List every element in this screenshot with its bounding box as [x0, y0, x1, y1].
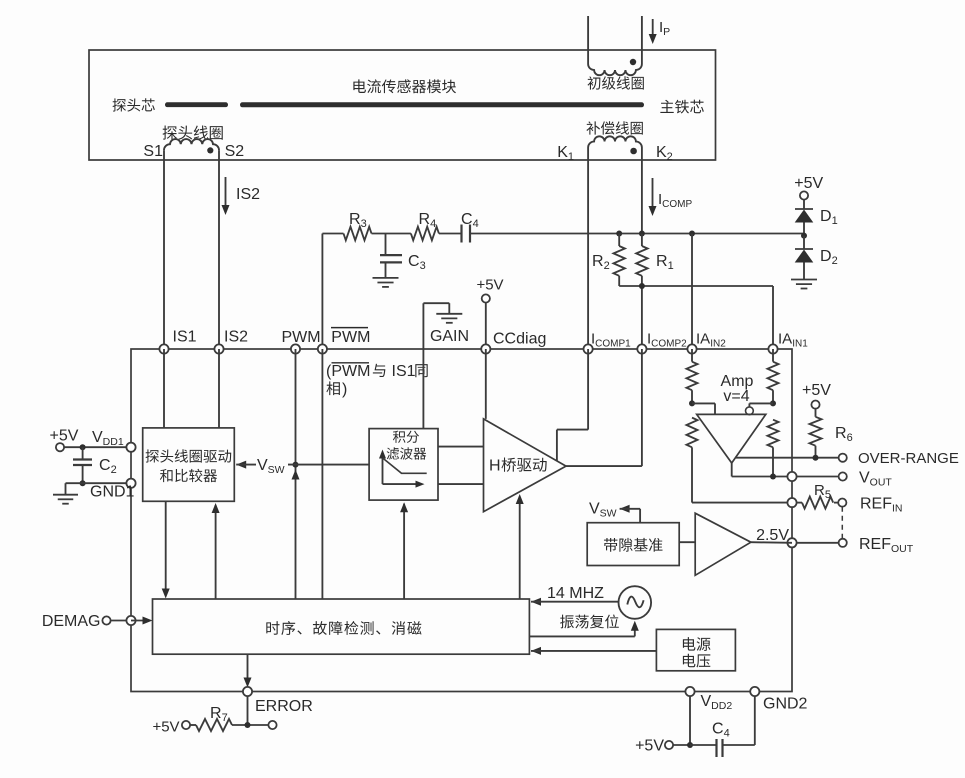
label OVER-RANGE	[858, 450, 959, 467]
svg-text:+5V: +5V	[152, 719, 179, 736]
wire osc to timing	[531, 598, 619, 606]
wire timing to filter (up)	[400, 502, 408, 599]
label R2	[592, 253, 610, 272]
svg-text:PWM: PWM	[331, 329, 370, 346]
label R6	[835, 425, 853, 444]
ground below C3	[373, 278, 399, 287]
svg-text:+5V: +5V	[794, 175, 823, 192]
label 初级线圈 (primary coil)	[588, 76, 644, 89]
feedback resistor left	[687, 418, 698, 503]
label 振荡复位	[560, 614, 619, 628]
note PWM phase line1	[326, 363, 428, 380]
terminal OVER-RANGE	[839, 454, 847, 462]
label REFOUT	[859, 536, 914, 555]
node R6 bottom	[813, 455, 819, 461]
ground below D2	[791, 280, 817, 289]
filter curve	[383, 458, 427, 473]
input resistor from IAIN1	[768, 349, 779, 403]
label 探头线圈驱动	[146, 449, 232, 462]
H-bridge triangle	[484, 419, 567, 512]
label R7	[210, 705, 228, 724]
label 滤波器	[387, 447, 427, 460]
probe core bar	[165, 102, 228, 107]
label 探头线圈 (probe coil)	[163, 125, 223, 139]
wire to IAIN1 pin	[772, 286, 774, 349]
label C4 (series)	[461, 211, 479, 230]
label VDD2	[701, 693, 733, 712]
node ERROR R7	[245, 722, 251, 728]
label C2	[99, 457, 117, 476]
wire timing to osc (reset)	[529, 621, 638, 637]
label R5	[814, 482, 831, 501]
wire amp output to VOUT	[732, 463, 792, 477]
pin IS1	[159, 344, 168, 353]
wire IS2 into drive box	[218, 349, 220, 428]
label 和比较器	[160, 469, 217, 482]
node feedback right to VOUT	[770, 474, 776, 480]
svg-text:IS2: IS2	[224, 329, 248, 346]
label Ip	[659, 19, 670, 38]
label K2	[656, 144, 673, 163]
svg-text:GND2: GND2	[763, 696, 808, 713]
label IAIN1 (pin)	[778, 331, 808, 350]
filter outputs to H-bridge	[438, 447, 484, 485]
oscillator sine	[627, 597, 643, 608]
+5V terminal (diodes)	[794, 175, 823, 209]
wire drive to timing (down)	[162, 501, 170, 598]
svg-text:H: H	[489, 458, 501, 475]
wire PWM into timing	[295, 349, 297, 599]
wire buffer to REFOUT pin	[751, 541, 792, 544]
wire R bottoms join	[619, 285, 773, 287]
node C2 top	[80, 444, 86, 450]
pin GND1	[126, 479, 135, 488]
label 14 MHZ	[547, 585, 604, 602]
label v=4	[723, 388, 749, 405]
wire ICOMP1 into H-bridge	[557, 349, 588, 461]
wire S2 to IS2 pin	[218, 150, 220, 349]
GAIN wire crossing (no pin)	[422, 303, 424, 428]
pin DEMAG	[126, 616, 135, 625]
svg-text:IS1: IS1	[173, 329, 197, 346]
label 电压	[683, 654, 710, 668]
terminal DEMAG	[42, 613, 131, 630]
svg-text:+5V: +5V	[476, 277, 503, 294]
svg-text:): )	[342, 381, 347, 398]
label CCdiag (pin)	[493, 331, 546, 348]
arrow up on PWM line	[292, 470, 300, 480]
dashed wire REFIN-REFOUT	[841, 507, 843, 540]
svg-text:PWM: PWM	[282, 329, 321, 346]
capacitor C2	[73, 447, 92, 483]
wire timing to drive (up)	[212, 503, 220, 599]
terminal REFIN	[838, 499, 846, 507]
node IAIN2 branch	[689, 231, 695, 237]
node R2 top	[616, 231, 622, 237]
wire ERROR from timing	[244, 654, 252, 687]
svg-text:GND1: GND1	[90, 484, 135, 501]
current sensor module box	[89, 50, 716, 160]
node C2 bottom	[80, 480, 86, 486]
timing fault demag box	[153, 599, 530, 654]
svg-text:v=4: v=4	[723, 388, 749, 405]
svg-text:IS1: IS1	[392, 363, 416, 380]
pin PWM	[291, 344, 300, 353]
wire OVER-RANGE tap	[736, 457, 843, 459]
resistor R3	[344, 227, 411, 241]
probe coil drive box	[143, 428, 235, 501]
pin CCdiag	[481, 344, 490, 353]
buffer triangle	[695, 513, 751, 575]
label VOUT	[859, 470, 892, 489]
label 时序故障检测消磁	[266, 621, 421, 635]
diode D2	[795, 236, 814, 279]
integral filter box	[369, 429, 438, 501]
wire REFOUT	[796, 542, 838, 544]
VSW arrow (bandgap)	[620, 505, 641, 523]
label H桥驱动	[489, 457, 547, 474]
wire GAIN into filter	[422, 428, 424, 430]
label S2	[225, 143, 245, 160]
pin IS2	[214, 344, 223, 353]
feedback resistor right	[768, 420, 779, 477]
node R1 top	[639, 231, 645, 237]
label K1	[557, 144, 574, 163]
resistor R2	[614, 234, 625, 287]
wire REFIN internal	[692, 502, 792, 504]
label 电流传感器模块	[353, 79, 456, 93]
svg-text:+5V: +5V	[802, 382, 831, 399]
bandgap reference box	[587, 523, 679, 566]
label IAIN2 (pin)	[696, 331, 726, 350]
label REFIN	[860, 496, 903, 515]
label VSW (bandgap)	[589, 501, 617, 520]
svg-text:+5V: +5V	[50, 428, 79, 445]
label VDD1	[92, 429, 124, 448]
label IS2 (pin)	[224, 329, 248, 346]
wire VSW to filter box	[288, 464, 369, 466]
wire GND1	[83, 482, 131, 484]
pin ICOMP2	[637, 344, 646, 353]
label D1	[820, 208, 838, 227]
resistor R6	[810, 417, 822, 458]
svg-text:14 MHZ: 14 MHZ	[547, 585, 604, 602]
pin GND2	[750, 687, 759, 696]
svg-text:GAIN: GAIN	[430, 328, 469, 345]
label 电源	[683, 637, 711, 651]
svg-text:OVER-RANGE: OVER-RANGE	[858, 450, 959, 467]
svg-text:ERROR: ERROR	[255, 698, 313, 715]
wire ERROR down	[247, 696, 249, 725]
wire IS1 into drive box	[163, 349, 165, 428]
oscillator circle	[619, 586, 652, 619]
+5V terminal (VDD2)	[635, 738, 690, 755]
pin VOUT	[787, 472, 796, 481]
label 探头芯 (probe core)	[113, 98, 155, 111]
pin REFIN	[787, 498, 796, 507]
wire PWMbar into timing	[321, 349, 323, 599]
wire DEMAG arrow	[131, 617, 153, 625]
VSW arrow into drive box	[236, 461, 256, 469]
wire to amp +input	[692, 403, 715, 414]
pin PWMbar	[318, 344, 327, 353]
wire IAIN2 riser	[691, 234, 693, 350]
label R1	[656, 253, 674, 272]
wire S1 to IS1 pin	[163, 150, 165, 349]
label GND2	[763, 696, 808, 713]
filter axes	[379, 450, 425, 488]
capacitor C4 (series)	[462, 225, 620, 243]
arrow Ip	[649, 19, 657, 44]
resistor R1	[636, 234, 647, 350]
label Amp	[721, 373, 754, 390]
main core bar	[240, 102, 644, 107]
wire PWMbar riser	[322, 234, 343, 350]
wire to amp -input bubble	[749, 403, 773, 406]
input resistor from IAIN2	[687, 349, 698, 403]
node diode junction	[801, 233, 807, 239]
node VDD2 +5V	[687, 742, 693, 748]
node amp left	[689, 400, 695, 406]
svg-text:+5V: +5V	[635, 738, 664, 755]
label 主铁芯 (main core)	[660, 100, 703, 114]
pin IAIN1	[768, 344, 777, 353]
label ERROR	[255, 698, 313, 715]
capacitor C3	[380, 234, 402, 278]
op-amp Amp triangle	[697, 414, 766, 463]
pin IAIN2	[687, 344, 696, 353]
+5V terminal (VDD1)	[50, 428, 131, 452]
label R4	[419, 211, 437, 230]
wire node row to diode junction	[619, 233, 804, 235]
resistor R4	[411, 227, 462, 241]
pin ERROR	[243, 687, 252, 696]
ground GND1	[53, 495, 78, 504]
pin ICOMP1	[584, 344, 593, 353]
node amp right	[770, 400, 776, 406]
wire primary right	[641, 16, 643, 64]
label C3	[408, 253, 426, 272]
+5V terminal (CCdiag)	[476, 277, 503, 350]
diode D1	[795, 209, 814, 236]
wire K2 down	[641, 148, 643, 234]
label ICOMP2 (pin)	[647, 331, 687, 350]
label IS2 (current)	[236, 186, 260, 203]
IC boundary	[131, 349, 792, 692]
amp inverting bubble	[746, 407, 754, 415]
wire CCdiag into H-bridge	[485, 349, 487, 419]
svg-text:CCdiag: CCdiag	[493, 331, 546, 348]
pin REFOUT	[787, 538, 796, 547]
node C3 tap	[384, 232, 386, 234]
label R3	[349, 211, 367, 230]
+5V terminal (R7)	[152, 719, 190, 736]
arrow IS2 current	[222, 177, 230, 215]
label 带隙基准	[604, 538, 663, 552]
label C4 (bottom)	[712, 721, 730, 740]
svg-text:(PWM: (PWM	[326, 363, 370, 380]
gain ground symbol	[423, 303, 462, 323]
svg-text:S2: S2	[225, 143, 245, 160]
label D2	[820, 248, 838, 267]
resistor R5	[796, 497, 838, 509]
primary coil	[588, 59, 642, 75]
terminal REFOUT	[839, 539, 847, 547]
compensation coil	[588, 136, 642, 154]
arrow ICOMP current	[649, 178, 657, 216]
wire timing to H-bridge (up)	[516, 494, 524, 599]
label PWMbar (pin)	[331, 328, 370, 346]
label GAIN (pin)	[430, 328, 469, 345]
wire psu to timing	[531, 647, 656, 655]
label VSW (drive)	[257, 457, 285, 476]
pin VDD1	[126, 443, 135, 452]
wire K1 to ICOMP1 pin	[587, 148, 589, 350]
label 积分	[393, 431, 419, 443]
svg-text:DEMAG: DEMAG	[42, 613, 101, 630]
terminal ERROR net	[268, 721, 276, 729]
label PWM (pin)	[282, 329, 321, 346]
label IS1 (pin)	[173, 329, 197, 346]
label ICOMP	[658, 191, 693, 210]
note PWM phase line2	[326, 381, 347, 398]
label 2.5V	[756, 527, 789, 544]
terminal VOUT	[839, 472, 847, 480]
label 补偿线圈 (compensation coil)	[586, 121, 642, 134]
wire VOUT	[796, 476, 838, 478]
label GND1	[90, 484, 135, 501]
wire to ground (left)	[66, 483, 83, 495]
wire H-bridge output to ICOMP2	[566, 349, 642, 466]
label ICOMP1 (pin)	[591, 331, 631, 350]
resistor R7	[190, 719, 268, 731]
svg-text:S1: S1	[143, 143, 163, 160]
svg-text:IS2: IS2	[236, 186, 260, 203]
+5V terminal (R6)	[802, 382, 831, 417]
node VSW	[293, 462, 299, 468]
power supply voltage box	[656, 629, 735, 670]
wire primary left	[587, 16, 589, 64]
pin VDD2	[685, 687, 694, 696]
capacitor C4 (bottom)	[690, 739, 755, 757]
wire VDD2 down	[689, 696, 691, 745]
probe coil	[164, 139, 219, 153]
node R1 bottom	[639, 283, 645, 289]
label S1	[143, 143, 163, 160]
wire bandgap to buffer	[679, 541, 695, 543]
wire up to GND2	[754, 696, 756, 745]
